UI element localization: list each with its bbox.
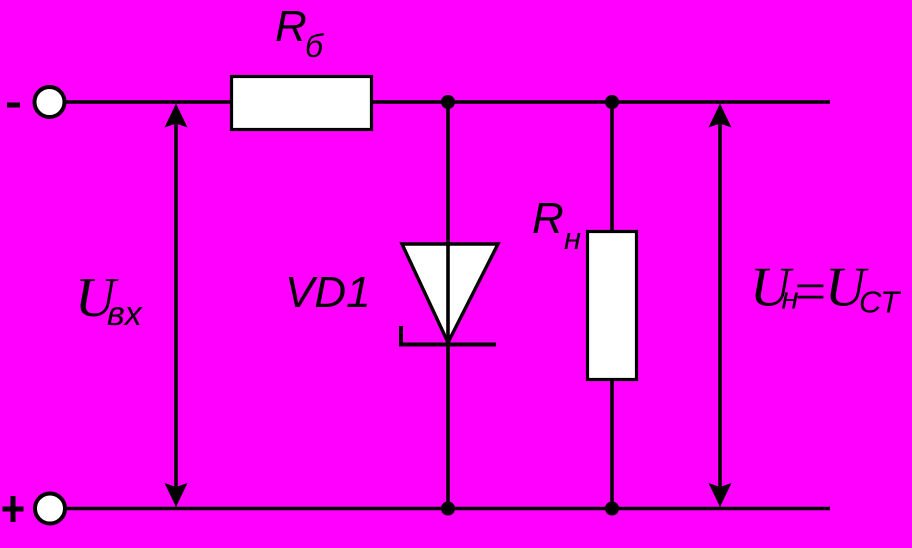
node junction bottom Rn (605, 502, 619, 516)
wire through VD1 triangle (446, 242, 450, 344)
arrow Uvx head up (165, 104, 188, 128)
wire Rn branch vertical (610, 102, 614, 509)
node junction top VD1 (441, 95, 455, 109)
wire VD1 branch vertical (446, 102, 450, 509)
svg-text:=: = (791, 261, 829, 323)
zener diode VD1 triangle (402, 244, 498, 343)
arrow Un head down (709, 483, 732, 507)
svg-text:VD1: VD1 (285, 268, 371, 317)
svg-text:б: б (305, 28, 324, 64)
arrow Uvx shaft (174, 118, 178, 492)
resistor Rn body (588, 232, 637, 380)
arrow Un head up (709, 104, 732, 128)
terminal input plus (35, 494, 65, 524)
node junction bottom VD1 (441, 502, 455, 516)
svg-text:вх: вх (107, 295, 143, 333)
wire bottom rail (64, 507, 830, 510)
arrow Uvx head down (165, 483, 188, 507)
svg-text:н: н (564, 221, 581, 256)
node junction top Rn (605, 95, 619, 109)
plus polarity label (3, 496, 24, 522)
resistor R6 body (232, 77, 372, 130)
terminal input minus (35, 87, 65, 117)
svg-text:СТ: СТ (859, 285, 901, 320)
minus polarity label (7, 103, 20, 108)
svg-text:R: R (532, 194, 564, 243)
svg-text:R: R (275, 2, 307, 51)
zener diode VD1 cathode bar (401, 326, 496, 345)
wire top rail (63, 100, 830, 103)
arrow Un shaft (718, 118, 722, 492)
